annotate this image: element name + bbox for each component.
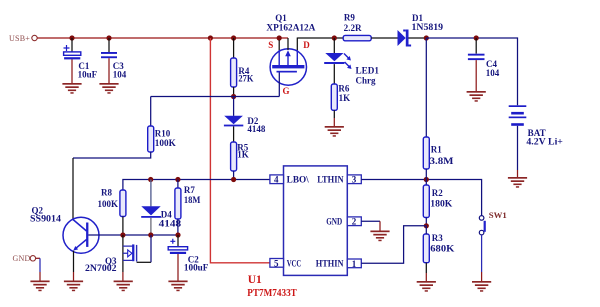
wire gate net to R10 (150, 97, 152, 127)
svg-text:SS9014: SS9014 (30, 213, 62, 223)
svg-text:180K: 180K (430, 199, 452, 209)
wire R7 top stub (177, 180, 179, 189)
node USB+ port (9, 34, 37, 43)
svg-text:R3: R3 (432, 233, 443, 243)
wire R4 bottom stub (233, 87, 235, 97)
wire R8 bottom stub (122, 217, 124, 236)
resistor R3 680K (423, 233, 454, 263)
wire gate net horizontal (151, 96, 280, 98)
junction gate net at R4/D2 (231, 94, 236, 99)
wire R4 top stub (233, 38, 235, 58)
wire battery rail (426, 38, 517, 105)
ground under battery (508, 177, 527, 188)
junction R2/R3 HTHIN (424, 223, 429, 228)
capacitor C4 (468, 54, 500, 78)
op-amp U1 PT7M7433T supervisor IC body (247, 166, 347, 299)
switch SW1 (479, 210, 506, 235)
junction R1 top / D1 cathode (424, 35, 429, 40)
svg-text:R9: R9 (344, 12, 355, 22)
resistor R5 1K (231, 142, 249, 171)
svg-text:U1: U1 (248, 274, 262, 286)
resistor R1 3.8M (423, 137, 454, 169)
wire D2 to R5 (233, 126, 235, 142)
wire C4 top stub (475, 38, 477, 54)
junction C4 top (474, 35, 479, 40)
wire D1 to battery rail (409, 37, 427, 39)
svg-text:104: 104 (113, 69, 127, 79)
ground under R6 (325, 126, 344, 137)
junction C1 top (69, 35, 74, 40)
svg-text:10uF: 10uF (78, 69, 98, 79)
svg-text:2.2R: 2.2R (344, 23, 363, 33)
wire Q1 drain to R9 (297, 37, 343, 39)
wire C1 lower stub (71, 59, 73, 83)
capacitor C2 100uF (168, 239, 209, 273)
svg-text:LTHIN: LTHIN (317, 175, 344, 185)
wire LED1 top stub (333, 38, 335, 53)
node GND port (13, 254, 41, 263)
svg-text:4.2V Li+: 4.2V Li+ (526, 137, 563, 147)
svg-text:27K: 27K (238, 73, 253, 83)
pin 3 LTHIN (317, 175, 361, 185)
battery BAT 4.2V Li+ (509, 105, 563, 146)
svg-text:PT7M7433T: PT7M7433T (247, 288, 296, 299)
svg-text:100uF: 100uF (184, 263, 209, 273)
wire Q2 base net (88, 234, 178, 236)
wire top power rail from USB+ to Q1 source (37, 37, 288, 39)
pin 1 HTHIN (316, 259, 362, 269)
wire R9 to D1 (371, 37, 397, 39)
wire Q3 source ground stem (122, 272, 124, 281)
svg-text:R1: R1 (431, 145, 442, 155)
transistor Q2 SS9014 npn (30, 205, 99, 253)
svg-text:680K: 680K (430, 244, 454, 254)
junction Q1 source (277, 35, 282, 40)
wire R1 top stub (425, 38, 427, 138)
ground under R3 (417, 281, 436, 292)
junction C2 top (175, 232, 180, 237)
junction R4 top (231, 35, 236, 40)
wire C4 lower stub (475, 60, 477, 91)
ground under SW1 (472, 281, 491, 292)
resistor R2 180K (423, 185, 452, 218)
svg-text:USB+: USB+ (9, 34, 30, 43)
svg-text:2: 2 (352, 217, 357, 227)
svg-text:4148: 4148 (247, 124, 266, 134)
wire SW1 ground stem (481, 272, 483, 281)
junction R1 bottom (424, 177, 429, 182)
capacitor C3 (101, 52, 127, 79)
transistor Q3 2N7002 n-mosfet (85, 235, 151, 273)
resistor R8 100K (98, 188, 126, 217)
ground under C1 (62, 83, 81, 94)
junction R7 top (175, 177, 180, 182)
wire battery to ground (517, 126, 519, 170)
wire LTHIN net pin3 to R1/SW1 (361, 180, 481, 216)
ground under Q2 (64, 281, 83, 292)
wire LBO net row (123, 180, 270, 191)
resistor R4 27K (231, 58, 254, 87)
wire C3 upper stub (108, 38, 110, 52)
svg-text:SW1: SW1 (489, 210, 507, 220)
transistor Q1 XP162A12A p-mosfet (266, 13, 316, 96)
ground under C3 (99, 83, 118, 94)
wire R5 bottom stub (233, 171, 235, 180)
diode D1 1N5819 (398, 13, 444, 46)
diode D2 4148 (224, 116, 266, 134)
svg-text:3: 3 (352, 175, 357, 185)
svg-text:R7: R7 (184, 185, 195, 195)
svg-text:D: D (303, 40, 310, 50)
wire battery ground stem (517, 170, 519, 177)
svg-text:104: 104 (486, 68, 500, 78)
capacitor C1 (64, 45, 98, 79)
wire R3 bottom stub (425, 263, 427, 273)
svg-text:LBO\: LBO\ (287, 175, 310, 185)
wire D4 bottom stub (150, 218, 152, 235)
wire R7 bottom stub (177, 219, 179, 235)
wire LED1 to R6 (333, 64, 335, 84)
svg-text:S: S (268, 40, 273, 50)
svg-text:G: G (283, 86, 290, 96)
ground under GND port (30, 281, 49, 292)
pin 2 GND (326, 217, 361, 227)
wire R2 bottom stub (425, 218, 427, 226)
svg-text:GND: GND (326, 217, 342, 227)
junction R8/Q3 (120, 232, 125, 237)
svg-text:18M: 18M (184, 195, 201, 205)
resistor R10 100K (148, 126, 176, 152)
svg-text:100K: 100K (98, 199, 119, 209)
svg-text:1K: 1K (237, 150, 249, 160)
junction VCC trace tap (208, 35, 213, 40)
resistor R6 1K (331, 84, 350, 111)
svg-text:4: 4 (274, 175, 279, 185)
wire C1 upper stub (71, 38, 73, 52)
wire R3 HTHIN stub (425, 226, 427, 234)
wire SW1 to ground (481, 235, 483, 272)
ground under C2 (168, 281, 187, 292)
LED LED1 Chrg (324, 53, 379, 85)
wire C3 lower stub (108, 58, 110, 83)
wire VCC red trace to U1 pin 5 (210, 38, 270, 263)
svg-text:LED1: LED1 (356, 66, 380, 76)
svg-text:1: 1 (352, 259, 357, 269)
svg-text:R8: R8 (101, 188, 112, 198)
wire Q2 emitter ground stem (73, 272, 75, 281)
wire C2 top stub (177, 235, 179, 247)
svg-text:3.8M: 3.8M (430, 156, 455, 166)
svg-text:2N7002: 2N7002 (85, 263, 117, 273)
svg-text:1N5819: 1N5819 (412, 22, 444, 32)
wire D4 top stub (150, 180, 152, 207)
ground under Q3 (114, 281, 133, 292)
svg-text:Chrg: Chrg (356, 75, 376, 85)
pin 4 LBO (270, 175, 309, 185)
ground at U1 pin2 (370, 231, 389, 242)
wire Q2 emitter to ground (73, 251, 75, 272)
junction D4/Q3 drain (148, 232, 153, 237)
svg-text:R10: R10 (155, 128, 171, 138)
wire R6 bottom stub (333, 110, 335, 118)
wire pin2 ground stem (379, 221, 381, 230)
resistor R7 18M (175, 185, 201, 219)
svg-text:100K: 100K (155, 138, 176, 148)
ground under C4 (467, 91, 486, 102)
svg-text:HTHIN: HTHIN (316, 259, 344, 269)
wire HTHIN net to pin1 (361, 226, 426, 263)
wire C2 lower stub (177, 254, 179, 281)
svg-text:VCC: VCC (287, 258, 302, 268)
diode D4 4148 (141, 206, 182, 228)
svg-text:R2: R2 (432, 188, 443, 198)
wire R1 bottom stub (425, 169, 427, 185)
wire R10 bottom to Q2 collector (73, 152, 151, 158)
junction LED1/R9 (332, 35, 337, 40)
wire GND port down (39, 258, 41, 272)
wire pin2 to ground (361, 220, 380, 222)
pin 5 VCC (270, 258, 301, 268)
svg-text:5: 5 (274, 258, 279, 268)
junction C3 top (106, 35, 111, 40)
resistor R9 2.2R (343, 12, 371, 40)
svg-text:1K: 1K (339, 93, 351, 103)
wire D2 top stub (233, 97, 235, 116)
junction R5 bottom (231, 177, 236, 182)
junction D4 top (148, 177, 153, 182)
svg-text:XP162A12A: XP162A12A (266, 23, 316, 33)
wire R3 ground stem (425, 273, 427, 281)
wire GND port ground stem (39, 272, 41, 281)
svg-text:GND: GND (13, 254, 31, 263)
